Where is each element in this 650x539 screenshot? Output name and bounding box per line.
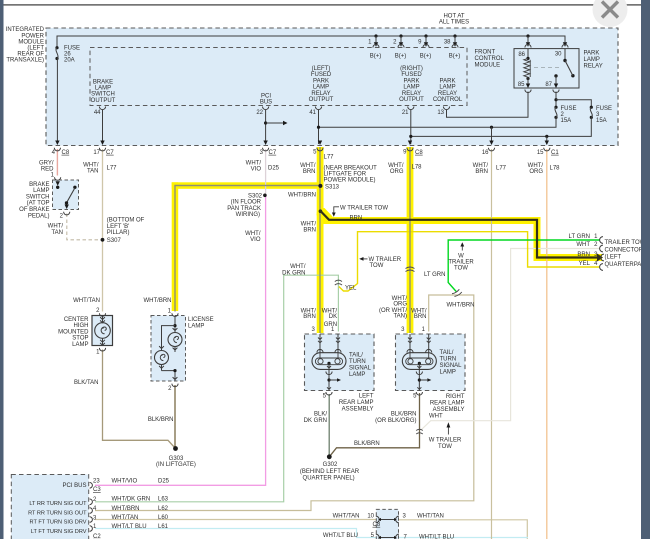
svg-text:OUTPUT: OUTPUT bbox=[309, 97, 334, 103]
trailer pin3 terminal blob bbox=[597, 254, 603, 262]
svg-text:WHT/: WHT/ bbox=[48, 224, 64, 230]
svg-text:41: 41 bbox=[309, 110, 316, 116]
svg-text:S302: S302 bbox=[248, 193, 263, 199]
svg-text:LAMP: LAMP bbox=[72, 342, 88, 348]
svg-text:LEFT: LEFT bbox=[359, 393, 374, 399]
right tail lamp box fill bbox=[396, 334, 466, 391]
annotation arrow: W TRAILER TOW at WHT wire bbox=[447, 425, 449, 435]
svg-text:WHT/: WHT/ bbox=[300, 163, 316, 169]
svg-text:WHT/BRN: WHT/BRN bbox=[447, 303, 475, 309]
wire FCM pin21 to pin9 bbox=[410, 110, 412, 144]
CHMSL box fill bbox=[92, 316, 113, 346]
svg-text:ASSEMBLY: ASSEMBLY bbox=[342, 406, 374, 412]
svg-text:OUTPUT: OUTPUT bbox=[399, 97, 424, 103]
svg-text:S313: S313 bbox=[325, 184, 340, 190]
svg-text:DK GRN: DK GRN bbox=[282, 270, 305, 276]
svg-text:13: 13 bbox=[437, 110, 444, 116]
svg-text:(IN FLOOR: (IN FLOOR bbox=[231, 200, 262, 206]
relay bottom pin arcs bbox=[526, 84, 530, 89]
left tail lamp symbol bbox=[319, 334, 321, 353]
svg-text:15A: 15A bbox=[596, 118, 607, 124]
svg-text:BLK/BRN: BLK/BRN bbox=[354, 441, 380, 447]
svg-text:L60: L60 bbox=[158, 515, 169, 521]
annotation arrow: W TRAILER TOW at YEL wire bbox=[361, 258, 368, 260]
svg-text:PCI: PCI bbox=[261, 94, 271, 100]
wire FCM pin41 to pin5 bbox=[318, 110, 320, 144]
junction BRN tap bbox=[319, 209, 323, 213]
svg-text:38: 38 bbox=[444, 40, 451, 46]
svg-text:L61: L61 bbox=[158, 524, 169, 530]
svg-text:POWER: POWER bbox=[21, 33, 44, 39]
junction S313 bbox=[318, 184, 322, 188]
right tail lamp symbol bbox=[409, 334, 411, 353]
svg-text:LAMP: LAMP bbox=[33, 188, 49, 194]
svg-text:C8: C8 bbox=[373, 522, 381, 528]
svg-text:BLK/: BLK/ bbox=[314, 411, 327, 417]
svg-text:G302: G302 bbox=[323, 462, 338, 468]
svg-text:BLK/BRN: BLK/BRN bbox=[148, 417, 174, 423]
svg-text:BRN: BRN bbox=[414, 314, 427, 320]
svg-text:B(+): B(+) bbox=[449, 54, 461, 60]
license lamp internals bbox=[174, 316, 176, 333]
svg-text:WHT/: WHT/ bbox=[290, 264, 306, 270]
svg-text:TAIL/: TAIL/ bbox=[440, 350, 454, 356]
svg-text:RELAY: RELAY bbox=[584, 63, 603, 69]
svg-text:PARK: PARK bbox=[404, 78, 420, 84]
svg-text:21: 21 bbox=[402, 110, 409, 116]
svg-text:TOW: TOW bbox=[454, 266, 468, 272]
svg-text:DK GRN: DK GRN bbox=[304, 418, 327, 424]
svg-text:BRN: BRN bbox=[350, 215, 363, 221]
ground G302 bbox=[327, 454, 332, 459]
svg-text:44: 44 bbox=[94, 110, 101, 116]
svg-text:LT GRN: LT GRN bbox=[424, 272, 445, 278]
wire WHT/TAN dashed jumper from switch pin2 bbox=[67, 214, 103, 240]
brake lamp switch dashed border bbox=[53, 180, 79, 210]
fuse 3 bbox=[590, 106, 593, 109]
svg-text:HOT AT: HOT AT bbox=[443, 14, 464, 20]
CHMSL solid border bbox=[92, 316, 113, 346]
svg-text:SWITCH: SWITCH bbox=[91, 92, 115, 98]
splice break on right lamp ground (WHT tap) bbox=[416, 429, 423, 430]
svg-text:PARK: PARK bbox=[440, 78, 456, 84]
left tail lamp dashed border bbox=[305, 334, 375, 391]
svg-text:MOUNTED: MOUNTED bbox=[58, 329, 89, 335]
svg-text:INTEGRATED: INTEGRATED bbox=[6, 27, 45, 33]
wire yellow highlight: BRN horizontal run bbox=[324, 217, 541, 224]
svg-text:WHT: WHT bbox=[576, 242, 590, 248]
svg-text:W TRAILER: W TRAILER bbox=[429, 438, 462, 444]
svg-text:POWER MODULE): POWER MODULE) bbox=[324, 177, 376, 183]
svg-text:17: 17 bbox=[93, 150, 100, 156]
svg-text:WHT/TAN: WHT/TAN bbox=[112, 515, 139, 521]
svg-text:ASSEMBLY: ASSEMBLY bbox=[433, 407, 465, 413]
liftgate connector C8 box fill bbox=[376, 509, 398, 539]
svg-text:B(+): B(+) bbox=[395, 54, 407, 60]
IPM bottom edge pin arrows and arcs bbox=[55, 141, 59, 146]
svg-text:WHT/VIO: WHT/VIO bbox=[112, 478, 138, 484]
wire fuse3 output to pins 21/15 bbox=[411, 117, 592, 136]
wire BLK/BRN right lamp ground bbox=[329, 393, 419, 457]
svg-text:MODULE: MODULE bbox=[475, 62, 501, 68]
svg-text:WHT/LT BLU: WHT/LT BLU bbox=[112, 524, 147, 530]
IPM module box fill bbox=[46, 28, 618, 146]
wire GRY/RED brake switch feed bbox=[56, 149, 58, 176]
wire yellow highlight: BRN branch elbow bbox=[317, 208, 333, 224]
wire yellow highlight: WHT/ORG L78 pin9 vertical bbox=[407, 147, 414, 333]
svg-text:WHT/TAN: WHT/TAN bbox=[73, 298, 100, 304]
IPM module dashed border bbox=[46, 28, 618, 146]
CHMSL lamp symbol bbox=[102, 316, 104, 323]
wire BRN dark core to trailer pin3 bbox=[321, 211, 600, 258]
svg-text:CONNECTOR: CONNECTOR bbox=[605, 247, 644, 253]
svg-text:BRN: BRN bbox=[303, 169, 316, 175]
svg-text:PEDAL): PEDAL) bbox=[28, 213, 50, 219]
svg-text:L77: L77 bbox=[324, 154, 335, 160]
svg-text:(BEHIND LEFT REAR: (BEHIND LEFT REAR bbox=[300, 469, 360, 475]
brake lamp switch box fill bbox=[53, 180, 79, 210]
svg-text:(LEFT): (LEFT) bbox=[312, 66, 331, 72]
relay switch bbox=[564, 49, 566, 61]
svg-text:PCI BUS: PCI BUS bbox=[62, 483, 86, 489]
svg-text:FRONT: FRONT bbox=[475, 50, 496, 56]
svg-text:WHT/: WHT/ bbox=[388, 163, 404, 169]
svg-text:TAN: TAN bbox=[87, 169, 99, 175]
svg-text:BRN: BRN bbox=[303, 228, 316, 234]
relay box bbox=[514, 49, 579, 88]
svg-text:(LEFT: (LEFT bbox=[605, 255, 622, 261]
svg-text:87: 87 bbox=[545, 82, 552, 88]
svg-text:L62: L62 bbox=[158, 506, 169, 512]
svg-text:LAMP: LAMP bbox=[439, 85, 455, 91]
svg-text:BLK/TAN: BLK/TAN bbox=[74, 380, 99, 386]
svg-text:BLK/BRN: BLK/BRN bbox=[391, 411, 417, 417]
relay pin 87 stub bbox=[554, 74, 557, 77]
wire core WHT/ORG pin9 gray core bbox=[409, 147, 411, 333]
right tail lamp dashed border bbox=[396, 334, 466, 391]
FCM inner dashed border bbox=[90, 48, 467, 106]
svg-text:BRN: BRN bbox=[475, 169, 488, 175]
splice S307 bbox=[101, 238, 105, 242]
svg-text:22: 22 bbox=[256, 110, 263, 116]
svg-text:TRANSAXLE): TRANSAXLE) bbox=[6, 58, 44, 64]
splice break on right turn wire (LT GRN tap) bbox=[455, 292, 462, 297]
svg-text:(RIGHT): (RIGHT) bbox=[400, 66, 423, 72]
wire YEL thin trailer pin4 bbox=[339, 232, 600, 291]
svg-text:LAMP: LAMP bbox=[584, 57, 600, 63]
svg-text:BRAKE: BRAKE bbox=[93, 79, 113, 85]
svg-text:WHT/DK GRN: WHT/DK GRN bbox=[112, 496, 151, 502]
svg-text:WHT/: WHT/ bbox=[83, 163, 99, 169]
svg-text:QUARTER PANEL): QUARTER PANEL) bbox=[303, 475, 355, 481]
wire WHT/TAN L77 brake out vertical bbox=[102, 149, 104, 312]
svg-text:TURN: TURN bbox=[440, 357, 457, 363]
svg-text:D25: D25 bbox=[158, 478, 170, 484]
wire BLK/BRN license ground bbox=[174, 385, 176, 449]
svg-text:RIGHT: RIGHT bbox=[446, 394, 465, 400]
svg-text:BRAKE: BRAKE bbox=[29, 182, 49, 188]
wire yellow highlight: BRN vertical at x537 bbox=[534, 217, 541, 261]
svg-text:REAR LAMP: REAR LAMP bbox=[339, 400, 374, 406]
svg-text:LT FT TURN SIG DRV: LT FT TURN SIG DRV bbox=[31, 529, 87, 535]
ground G303 bbox=[173, 446, 178, 451]
svg-text:WHT/LT BLU: WHT/LT BLU bbox=[419, 535, 454, 539]
svg-text:BRN: BRN bbox=[303, 314, 316, 320]
svg-text:C7: C7 bbox=[269, 150, 277, 156]
brake switch internals bbox=[56, 181, 60, 186]
svg-text:WHT/: WHT/ bbox=[245, 231, 261, 237]
svg-text:L77: L77 bbox=[107, 166, 118, 172]
svg-text:ORG: ORG bbox=[390, 169, 404, 175]
wire FCM pin22 to pin3 with PCI arrow bbox=[265, 110, 267, 144]
svg-text:C7: C7 bbox=[106, 150, 114, 156]
svg-text:CONTROL: CONTROL bbox=[475, 56, 505, 62]
svg-text:LAMP: LAMP bbox=[95, 86, 111, 92]
svg-text:HIGH: HIGH bbox=[74, 323, 89, 329]
svg-text:ALL TIMES: ALL TIMES bbox=[439, 20, 469, 26]
svg-text:20A: 20A bbox=[64, 58, 75, 64]
svg-text:S307: S307 bbox=[107, 238, 122, 244]
svg-text:WHT/: WHT/ bbox=[473, 163, 489, 169]
svg-text:C8: C8 bbox=[415, 150, 423, 156]
svg-text:GRY/: GRY/ bbox=[39, 161, 54, 167]
svg-text:DK: DK bbox=[329, 314, 337, 320]
svg-text:WHT/TAN: WHT/TAN bbox=[333, 513, 360, 519]
right frame bar bbox=[641, 0, 650, 539]
svg-text:D25: D25 bbox=[268, 166, 280, 172]
wire WHT/LT BLU L61 right row bbox=[399, 537, 529, 539]
top frame line bbox=[4, 4, 642, 5]
wire WHT/VIO pink to PCI pin23 bbox=[95, 195, 266, 485]
svg-text:VIO: VIO bbox=[250, 237, 261, 243]
svg-text:LEFT 'B': LEFT 'B' bbox=[107, 224, 130, 230]
svg-text:W TRAILER TOW: W TRAILER TOW bbox=[340, 205, 388, 211]
svg-text:TRAILER: TRAILER bbox=[448, 260, 474, 266]
svg-text:85: 85 bbox=[518, 82, 525, 88]
annotation leader: W TRAILER TOW at BRN bbox=[334, 207, 339, 214]
svg-text:YEL: YEL bbox=[579, 261, 591, 267]
svg-text:LAMP: LAMP bbox=[313, 85, 329, 91]
svg-text:L78: L78 bbox=[550, 166, 561, 172]
fuse 2 bbox=[554, 106, 557, 109]
svg-text:B(+): B(+) bbox=[420, 54, 432, 60]
svg-text:SIGNAL: SIGNAL bbox=[349, 366, 372, 372]
svg-text:RELAY: RELAY bbox=[438, 91, 457, 97]
svg-text:WHT/BRN: WHT/BRN bbox=[288, 192, 316, 198]
svg-text:TURN: TURN bbox=[349, 359, 366, 365]
svg-text:TAIL/: TAIL/ bbox=[349, 353, 363, 359]
svg-text:WHT/BRN: WHT/BRN bbox=[112, 506, 140, 512]
wire fuse26 to pin4 bbox=[56, 59, 58, 145]
PCI bus connector box fill bbox=[11, 475, 88, 539]
svg-text:TOW: TOW bbox=[370, 263, 384, 269]
svg-text:(BOTTOM OF: (BOTTOM OF bbox=[107, 218, 145, 224]
svg-text:RT FT TURN SIG DRV: RT FT TURN SIG DRV bbox=[30, 520, 87, 526]
svg-text:TAN): TAN) bbox=[393, 314, 407, 320]
svg-text:OUTPUT: OUTPUT bbox=[91, 98, 116, 104]
svg-text:VIO: VIO bbox=[251, 167, 262, 173]
left frame bar bbox=[0, 0, 4, 539]
wire WHT trailer tow pin2 bbox=[422, 249, 601, 430]
svg-text:LAMP: LAMP bbox=[349, 372, 365, 378]
svg-text:FUSED: FUSED bbox=[311, 72, 332, 78]
svg-text:WIRING): WIRING) bbox=[236, 212, 260, 218]
svg-text:ORG: ORG bbox=[393, 302, 407, 308]
svg-text:C1: C1 bbox=[551, 150, 559, 156]
bus junction dots bbox=[374, 34, 377, 37]
svg-text:WHT: WHT bbox=[429, 414, 443, 420]
svg-text:RELAY: RELAY bbox=[311, 91, 330, 97]
trailer tow connector pin arcs bbox=[600, 237, 603, 244]
svg-text:LAMP: LAMP bbox=[188, 324, 204, 330]
svg-text:(AT TOP: (AT TOP bbox=[27, 201, 50, 207]
wire BLK/TAN CHMSL ground bbox=[103, 350, 176, 449]
svg-text:L63: L63 bbox=[158, 496, 169, 502]
svg-text:CENTER: CENTER bbox=[64, 317, 89, 323]
svg-text:FUSED: FUSED bbox=[401, 72, 422, 78]
svg-text:L78: L78 bbox=[412, 165, 423, 171]
svg-text:PARK: PARK bbox=[313, 78, 329, 84]
svg-text:MODULE: MODULE bbox=[18, 39, 44, 45]
svg-text:L77: L77 bbox=[496, 166, 507, 172]
svg-text:C3: C3 bbox=[93, 487, 101, 493]
svg-text:YEL: YEL bbox=[345, 285, 357, 291]
wire WHT/DK GRN L63 net bbox=[95, 275, 338, 502]
svg-text:WHT/LT BLU: WHT/LT BLU bbox=[323, 533, 358, 539]
svg-text:WHT/: WHT/ bbox=[528, 163, 544, 169]
svg-text:86: 86 bbox=[518, 52, 525, 58]
liftgate C8 dashed border bbox=[376, 509, 398, 539]
close button bbox=[593, 0, 628, 27]
brake switch pin1 arc bbox=[55, 177, 61, 180]
license lamp dashed border bbox=[151, 316, 186, 382]
svg-text:(IN LIFTGATE): (IN LIFTGATE) bbox=[156, 462, 196, 468]
svg-text:BUS: BUS bbox=[260, 100, 272, 106]
svg-text:LAMP: LAMP bbox=[403, 85, 419, 91]
svg-text:15: 15 bbox=[537, 150, 544, 156]
svg-text:LT RR TURN SIG OUT: LT RR TURN SIG OUT bbox=[29, 501, 87, 507]
wire relay 87 to fuses bbox=[555, 92, 557, 108]
svg-text:(LEFT: (LEFT bbox=[27, 46, 44, 52]
license lamp box fill bbox=[151, 316, 186, 382]
svg-text:C8: C8 bbox=[62, 150, 70, 156]
svg-text:OF BRAKE: OF BRAKE bbox=[19, 207, 49, 213]
svg-text:W: W bbox=[458, 253, 464, 259]
liftgate C8 connector arrows and arcs bbox=[376, 516, 379, 523]
svg-text:16: 16 bbox=[482, 150, 489, 156]
svg-text:PILLAR): PILLAR) bbox=[107, 230, 130, 236]
wire yellow highlight: WHT/BRN L77 pin5 vertical bbox=[317, 147, 324, 333]
hot bus inside IPM bbox=[57, 36, 565, 48]
wire fuse2 output to pins 41/16 bbox=[319, 117, 557, 127]
svg-text:LAMP: LAMP bbox=[440, 370, 456, 376]
svg-text:CONTROL: CONTROL bbox=[433, 97, 463, 103]
wire LT GRN trailer pin1 bbox=[448, 240, 600, 292]
wire WHT/BRN L62 net bbox=[95, 295, 474, 511]
fuse 26 bbox=[55, 46, 58, 49]
svg-text:PAN TRACK: PAN TRACK bbox=[227, 206, 261, 212]
wire WHT/LT BLU L61 left row bbox=[95, 529, 376, 538]
wire BLK/DK GRN left lamp ground bbox=[328, 394, 330, 457]
wire FCM pin13 to relay 85 bbox=[447, 92, 529, 118]
wire WHT/TAN L60 left row bbox=[95, 519, 376, 521]
wire WHT/TAN L60 right row bbox=[399, 520, 528, 539]
svg-text:LICENSE: LICENSE bbox=[188, 317, 214, 323]
wire core WHT/BRN pin5 gray core bbox=[319, 147, 321, 333]
svg-text:WHT/BRN: WHT/BRN bbox=[144, 298, 172, 304]
wire core license lamp feed bbox=[175, 186, 320, 312]
wire yellow highlight: license lamp vertical bbox=[172, 182, 179, 311]
svg-text:RT RR TURN SIG OUT: RT RR TURN SIG OUT bbox=[28, 510, 87, 516]
svg-text:WHT/: WHT/ bbox=[246, 161, 262, 167]
svg-text:TRAILER TOW: TRAILER TOW bbox=[605, 240, 646, 246]
svg-text:SIGNAL: SIGNAL bbox=[440, 363, 463, 369]
wire WHT/VIO upper pale bbox=[265, 149, 267, 195]
splice break on left turn wire (YEL tap) bbox=[335, 280, 342, 281]
svg-text:10: 10 bbox=[367, 513, 374, 519]
wire WHT/BRN L77 pin16 vertical bbox=[491, 149, 493, 539]
PCI connector dashed border bbox=[11, 475, 88, 539]
svg-text:TOW: TOW bbox=[438, 444, 452, 450]
svg-text:23: 23 bbox=[93, 478, 100, 484]
relay coil bbox=[527, 49, 529, 59]
svg-text:REAR OF: REAR OF bbox=[17, 52, 44, 58]
svg-text:LT GRN: LT GRN bbox=[569, 234, 590, 240]
svg-text:STOP: STOP bbox=[72, 336, 88, 342]
annotation arrow: W TRAILER TOW at LT GRN wire bbox=[461, 244, 463, 251]
splice S302 bbox=[263, 194, 267, 198]
svg-text:RELAY: RELAY bbox=[402, 91, 421, 97]
splice break on WHT/ORG wire bbox=[406, 267, 415, 269]
svg-text:30: 30 bbox=[555, 52, 562, 58]
svg-text:TAN: TAN bbox=[51, 230, 63, 236]
svg-text:WHT/: WHT/ bbox=[301, 221, 317, 227]
left tail lamp box fill bbox=[305, 334, 375, 391]
svg-text:(OR BLK/ORG): (OR BLK/ORG) bbox=[375, 418, 416, 424]
svg-text:G303: G303 bbox=[169, 456, 184, 462]
svg-text:15A: 15A bbox=[561, 118, 572, 124]
svg-text:B(+): B(+) bbox=[370, 54, 382, 60]
wire FCM pin44 to pin17 bbox=[102, 110, 104, 144]
svg-text:WHT/TAN: WHT/TAN bbox=[417, 513, 444, 519]
wire WHT/ORG L78 pin15 vertical bbox=[546, 149, 548, 539]
wire yellow highlight: horizontal to license lamp bbox=[172, 182, 320, 189]
FCM top pin arcs and arrows bbox=[374, 42, 378, 47]
PCI connector pin arcs bbox=[90, 483, 93, 489]
B+ pin drops bbox=[375, 36, 377, 44]
FCM bottom pin arcs bbox=[99, 107, 105, 110]
svg-text:PARK: PARK bbox=[584, 51, 600, 57]
wire yellow highlight: BRN row to trailer pin 3 bbox=[534, 254, 603, 261]
svg-text:C2: C2 bbox=[93, 534, 101, 539]
relay actuator dashed link bbox=[534, 67, 561, 69]
svg-text:REAR LAMP: REAR LAMP bbox=[430, 401, 465, 407]
svg-text:BRN: BRN bbox=[577, 252, 590, 258]
svg-text:W TRAILER: W TRAILER bbox=[369, 257, 402, 263]
svg-text:SWITCH: SWITCH bbox=[26, 194, 50, 200]
svg-text:ORG: ORG bbox=[529, 169, 543, 175]
